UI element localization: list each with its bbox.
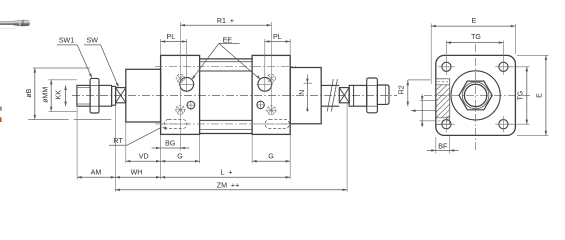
dimension øB xyxy=(34,68,36,120)
svg-text:N: N xyxy=(299,90,306,95)
svg-text:øB: øB xyxy=(26,88,33,97)
front phantom cushion screw xyxy=(176,105,185,114)
dimension TG top xyxy=(446,42,503,44)
svg-text:WH: WH xyxy=(131,169,143,177)
dimension G rear xyxy=(252,160,290,162)
extension line front block face down xyxy=(125,122,127,163)
extension line plate left top xyxy=(430,24,432,85)
svg-text:TG: TG xyxy=(518,91,525,101)
rear port EE circle with centerlines xyxy=(258,77,272,91)
dimension R2 xyxy=(408,79,431,81)
rod nut hexagon xyxy=(459,81,492,110)
rear end cap xyxy=(252,55,290,134)
tie rod hole top left xyxy=(442,62,451,71)
main horizontal centerline of cylinder axis xyxy=(72,95,397,97)
svg-text:R1 +: R1 + xyxy=(217,17,234,25)
front mounting block (rod side) xyxy=(126,69,161,122)
piston rod section xyxy=(99,85,112,106)
svg-text:R2: R2 xyxy=(398,85,405,94)
dimension PL rear xyxy=(265,41,290,43)
tie rod hole top right xyxy=(499,62,508,71)
rear wrench flats box with cross xyxy=(339,88,349,103)
tie rod centerline bottom xyxy=(155,123,296,125)
svg-text:ZM ++: ZM ++ xyxy=(217,181,239,189)
cylinder barrel profile lines xyxy=(200,58,253,60)
rear cushion screw xyxy=(257,101,264,108)
extension line front cap left down xyxy=(160,135,162,180)
dimension BF xyxy=(435,137,437,154)
rod thread circles xyxy=(462,82,489,109)
dimension WH xyxy=(115,176,160,178)
front port EE circle with centerlines xyxy=(180,77,194,91)
dimension E top xyxy=(431,25,515,27)
dimension BG xyxy=(161,147,181,149)
extension line front cap right down xyxy=(199,135,201,164)
rear piston rod with break symbol xyxy=(321,84,339,86)
rear rod nut xyxy=(367,78,378,113)
rod collar xyxy=(112,86,116,105)
extension line thread start down xyxy=(76,108,78,180)
end view horizontal centerline xyxy=(424,94,530,96)
svg-text:KK: KK xyxy=(55,90,62,100)
dimension øMM extension lines xyxy=(49,79,77,81)
small reference line with arrow xyxy=(411,110,436,112)
dimension PL front xyxy=(161,41,187,43)
dimension E right xyxy=(545,55,547,135)
rod nut SW1 xyxy=(90,78,99,113)
extension line plate bottom right xyxy=(517,134,549,136)
svg-text:RT: RT xyxy=(113,137,123,145)
dimension L + xyxy=(161,176,291,178)
extension line rear cap left down xyxy=(251,135,253,164)
end view flange plate xyxy=(436,55,516,135)
svg-text:G: G xyxy=(177,153,183,161)
extension line rear cap right face up xyxy=(289,39,291,55)
dimension øMM xyxy=(50,80,52,112)
svg-text:SW1: SW1 xyxy=(59,37,74,45)
rear phantom cushion screw xyxy=(267,106,276,115)
dimension VD xyxy=(126,160,161,162)
front cushion screw xyxy=(187,101,195,109)
dimension AM xyxy=(77,176,115,178)
extension line plate right top xyxy=(514,24,516,54)
dimension KK xyxy=(65,85,67,106)
svg-text:E: E xyxy=(472,17,477,25)
svg-text:øMM: øMM xyxy=(43,87,50,103)
svg-text:L +: L + xyxy=(220,169,232,177)
piston rod thread (KK) block xyxy=(77,85,90,106)
extension line rear cap right down xyxy=(289,135,291,180)
extension line rod shoulder down xyxy=(114,105,116,192)
svg-text:E: E xyxy=(537,93,544,98)
tie rod hole bottom left xyxy=(442,120,451,129)
end view vertical centerline xyxy=(475,44,477,151)
svg-text:PL: PL xyxy=(167,33,176,41)
svg-text:BG: BG xyxy=(165,139,175,147)
dimension N xyxy=(304,82,312,84)
svg-text:AM: AM xyxy=(91,169,102,177)
front phantom port circle (opposite face) xyxy=(176,74,184,82)
rear thread stub xyxy=(377,85,389,104)
svg-text:SW: SW xyxy=(86,37,98,45)
wrench flats box SW with cross xyxy=(116,88,126,103)
svg-text:VD: VD xyxy=(139,153,149,161)
hidden tie rod thread RT in front cap xyxy=(164,119,187,128)
front end cap xyxy=(161,55,200,134)
svg-text:G: G xyxy=(268,153,274,161)
tie rod hole bottom right xyxy=(499,120,508,129)
svg-text:TG: TG xyxy=(471,33,481,41)
rear rod section xyxy=(349,85,367,106)
extension line holes right xyxy=(509,66,530,68)
small vertical dimension at sensor slot xyxy=(421,95,423,128)
rear phantom port circle (opposite face) xyxy=(267,74,275,82)
hidden tie rod thread RT in rear cap xyxy=(265,119,289,128)
svg-text:BF: BF xyxy=(438,142,448,150)
extension line rear rod end down xyxy=(346,104,348,192)
dimension øB extension lines xyxy=(33,67,90,69)
extension line plate top right xyxy=(517,54,549,56)
clipped orange letter a at left margin xyxy=(0,107,2,111)
dimension G front xyxy=(161,160,200,162)
svg-text:PL: PL xyxy=(273,33,282,41)
rod boss circle xyxy=(451,71,500,120)
extension line front cap left face up xyxy=(160,39,162,55)
dimension ZM ++ xyxy=(115,189,347,191)
dimension TG right xyxy=(526,67,528,124)
dimension R1 + xyxy=(180,24,271,26)
rear mounting block (double rod side) xyxy=(290,68,321,124)
tie rod centerline top xyxy=(155,65,296,67)
